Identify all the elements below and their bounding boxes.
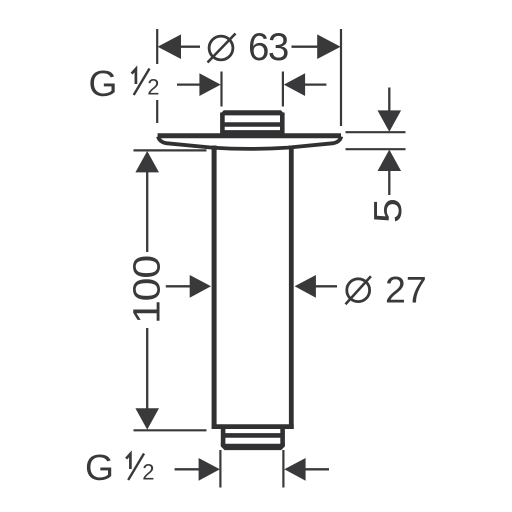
pipe bottom edge <box>212 424 294 429</box>
dimension G1/2 top: right arrowhead <box>284 73 305 96</box>
dimension G1/2 bottom: leader line right <box>304 468 329 470</box>
svg-text:100: 100 <box>127 256 169 324</box>
dimension O63: left arrowhead <box>158 34 181 59</box>
dimension O63: diameter symbol <box>209 36 233 60</box>
top thread block G1/2: side walls <box>220 113 225 135</box>
dimension G1/2 bottom: right arrowhead <box>284 458 305 481</box>
dimension 100: dimension line segments <box>146 170 148 252</box>
top thread lower ridge line <box>221 130 285 134</box>
dimension G1/2 top: left arrowhead <box>199 73 220 96</box>
dimension G1/2 bottom: left arrowhead <box>199 458 220 481</box>
dimension 5: upper leader line <box>388 88 390 113</box>
svg-text:2: 2 <box>147 75 159 100</box>
svg-text:G: G <box>85 447 114 488</box>
dimension G1/2 bottom: leader line left <box>175 468 199 470</box>
dimension O63: right extension line <box>340 29 342 126</box>
dimension G1/2 bottom: left extension line <box>219 450 221 488</box>
svg-text:2: 2 <box>142 460 154 485</box>
dimension O27: right leader line <box>314 285 337 287</box>
dimension O27: diameter symbol <box>347 279 370 302</box>
top thread inner ridge line <box>221 122 285 127</box>
bottom thread inner ridge line <box>221 433 285 438</box>
dimension O27: left arrowhead <box>190 275 211 298</box>
dimension O27: left leader line <box>166 285 192 287</box>
dimension G1/2 top: leader line right <box>304 83 327 85</box>
dimension G1/2 bottom: right extension line <box>282 450 284 488</box>
dimension 100: bottom extension line <box>134 429 207 431</box>
dimension G1/2 top: leader line left <box>177 83 201 85</box>
flange underside <box>158 137 341 149</box>
svg-text:27: 27 <box>385 268 427 310</box>
dimension O27: right arrowhead <box>295 275 316 298</box>
dimension 5: bottom extension line (flange underside) <box>346 148 406 150</box>
dimension O63: right arrowhead <box>317 34 340 59</box>
dimension O63: dimension line segments <box>179 46 200 48</box>
svg-text:5: 5 <box>367 198 410 223</box>
bottom thread block G1/2: bottom bar with chamfered corners <box>221 444 285 450</box>
dimension G1/2 top: left extension line <box>220 72 222 107</box>
label G1/2 top: fraction 1/2 <box>132 69 160 100</box>
dimension 5: top extension line (flange top) <box>346 131 406 133</box>
svg-text:G: G <box>89 63 118 104</box>
dimension 100: top arrowhead <box>135 151 159 172</box>
flange top edge <box>158 133 341 138</box>
dimension 5: down arrowhead <box>378 110 402 131</box>
dimension 5: lower leader line <box>388 169 390 195</box>
dimension 100: bottom arrowhead <box>135 408 159 429</box>
dimension 100: top extension line <box>134 149 207 151</box>
label G1/2 bottom: fraction 1/2 <box>126 454 154 485</box>
svg-text:63: 63 <box>248 26 288 69</box>
pipe left wall <box>212 146 217 430</box>
pipe right wall <box>289 146 294 430</box>
dimension O63: left extension line (gap at 1/2 text) <box>156 29 158 64</box>
top thread block G1/2: top bar with chamfered corners <box>220 110 285 115</box>
dimension G1/2 top: right extension line <box>282 72 284 107</box>
bottom thread block G1/2: side walls <box>221 428 226 446</box>
dimension 5: value 5 (rotated) <box>367 198 410 223</box>
dimension 100: value 100 (rotated) <box>127 256 169 324</box>
dimension 5: up arrowhead <box>378 150 402 171</box>
